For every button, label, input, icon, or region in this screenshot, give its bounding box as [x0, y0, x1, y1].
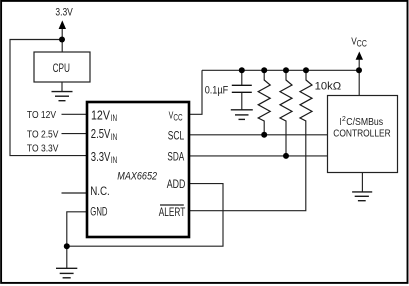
svg-text:GND: GND — [90, 205, 107, 219]
svg-text:ADD: ADD — [167, 177, 186, 191]
svg-text:IN: IN — [111, 113, 117, 124]
svg-text:3.3V: 3.3V — [91, 150, 111, 164]
svg-text:SDA: SDA — [167, 150, 184, 164]
svg-text:CC: CC — [357, 38, 368, 48]
svg-text:IN: IN — [111, 155, 117, 166]
svg-text:TO 3.3V: TO 3.3V — [27, 143, 59, 154]
svg-text:TO 12V: TO 12V — [27, 110, 56, 121]
svg-text:0.1µF: 0.1µF — [205, 84, 229, 96]
svg-text:CONTROLLER: CONTROLLER — [333, 128, 391, 140]
svg-text:2: 2 — [342, 116, 346, 123]
svg-text:C/SMBus: C/SMBus — [346, 116, 383, 128]
svg-text:SCL: SCL — [168, 129, 185, 143]
svg-text:ALERT: ALERT — [159, 205, 186, 219]
svg-text:IN: IN — [111, 132, 117, 143]
svg-text:N.C.: N.C. — [90, 184, 110, 198]
svg-text:TO 2.5V: TO 2.5V — [27, 129, 59, 140]
svg-text:3.3V: 3.3V — [55, 7, 73, 19]
svg-text:2.5V: 2.5V — [91, 127, 111, 141]
svg-text:CC: CC — [173, 111, 182, 122]
svg-text:12V: 12V — [91, 109, 110, 123]
svg-text:10kΩ: 10kΩ — [315, 80, 342, 92]
svg-text:CPU: CPU — [53, 61, 70, 75]
svg-text:MAX6652: MAX6652 — [117, 171, 157, 183]
